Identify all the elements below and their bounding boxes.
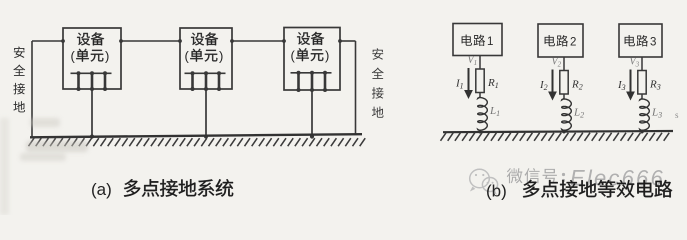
wire box 2 ground drop	[205, 89, 207, 137]
label I2	[539, 79, 548, 92]
circuit box 3 (电路3)	[619, 24, 662, 57]
label R1	[487, 77, 499, 90]
junction dot box 2 at ground plane	[204, 134, 208, 138]
label L2	[573, 107, 584, 120]
ground plane (a)	[30, 134, 362, 137]
wire left vertical safety-ground rail	[31, 41, 33, 137]
label R3	[649, 79, 661, 92]
caption (a)	[91, 179, 233, 199]
svg-text:I3: I3	[617, 79, 626, 92]
inductor L2	[562, 99, 572, 131]
label V3 node voltage	[630, 57, 640, 69]
wire branch 3 resistor to inductor	[641, 94, 643, 99]
ground plane (a) hatching	[29, 138, 366, 146]
svg-text:): )	[105, 49, 109, 64]
junction dot box 1 left terminal	[61, 39, 65, 43]
junction dot branch 3 at ground plane	[640, 130, 643, 133]
svg-text:V1: V1	[468, 55, 478, 67]
svg-text:R1: R1	[487, 77, 499, 90]
resistor R3	[638, 71, 646, 95]
junction dot branch 1 at ground plane	[478, 130, 481, 133]
current arrow I3	[626, 70, 635, 101]
label 设备 in box 1	[77, 32, 104, 45]
bonding straps in box 1	[77, 71, 108, 91]
label 安全接地 left (vertical)	[13, 46, 25, 112]
junction dot box 3 at ground plane	[310, 134, 314, 138]
wire branch 1 resistor to inductor	[479, 93, 481, 98]
wire branch 2 resistor to inductor	[563, 94, 565, 99]
internal ground bus in box 2	[185, 72, 226, 74]
inductor L1	[478, 97, 488, 131]
svg-text:1: 1	[487, 36, 493, 48]
svg-text:(b): (b)	[486, 182, 507, 201]
label 设备 in box 3	[297, 32, 324, 45]
svg-text:I1: I1	[455, 78, 464, 91]
wire right vertical safety-ground rail	[355, 41, 357, 135]
wire top bus segment 3	[232, 40, 284, 42]
junction dot box 1 at ground plane	[90, 134, 94, 138]
label L1	[489, 105, 500, 118]
label L3	[651, 107, 662, 120]
equipment box 3 (设备单元)	[284, 28, 340, 91]
inductor L3	[640, 99, 650, 131]
ground plane (b) hatching	[441, 133, 670, 141]
svg-text:V2: V2	[552, 57, 562, 69]
label (单元) in box 1	[71, 49, 110, 64]
svg-text:R2: R2	[571, 79, 583, 92]
junction dot box 2 left terminal	[178, 39, 182, 43]
junction dot box 2 right terminal	[230, 39, 234, 43]
wire box 3 ground drop	[311, 90, 313, 137]
bonding straps in box 2	[191, 71, 222, 91]
label V2 node voltage	[552, 57, 562, 69]
scan artifact left edge smudge	[0, 118, 9, 215]
label 设备 in box 2	[191, 32, 218, 45]
circuit box 2 (电路2)	[538, 24, 583, 57]
label I1	[455, 78, 464, 91]
internal ground bus in box 3	[291, 72, 332, 74]
svg-text:): )	[325, 48, 329, 63]
junction dot box 1 right terminal	[119, 39, 123, 43]
svg-text:2: 2	[570, 37, 576, 49]
wire top bus segment 4	[340, 40, 356, 42]
watermark text 微信号：Elec666	[507, 166, 665, 191]
wire branch 3 from box to resistor	[641, 57, 643, 71]
wire top bus segment 1	[32, 40, 63, 42]
label R2	[571, 79, 583, 92]
svg-text:(: (	[291, 48, 296, 63]
junction dot box 3 left terminal	[282, 39, 286, 43]
svg-text:(: (	[185, 49, 190, 64]
label 安全接地 right (vertical)	[372, 48, 384, 117]
label 电路1	[462, 34, 494, 48]
scan artifact above ground-left	[30, 118, 60, 127]
watermark wechat logo	[470, 169, 498, 194]
svg-text:I2: I2	[539, 79, 548, 92]
resistor R2	[560, 71, 568, 95]
current arrow I2	[548, 70, 557, 101]
label 电路3	[625, 35, 657, 49]
scan artifact bottom-left blob 1	[26, 141, 88, 152]
svg-text:R3: R3	[649, 79, 661, 92]
svg-text:V3: V3	[630, 57, 640, 69]
label V1 node voltage	[468, 55, 478, 67]
label 电路2	[545, 35, 577, 49]
label I3	[617, 79, 626, 92]
equipment box 1 (设备单元)	[63, 28, 121, 89]
junction dot box 3 right terminal	[338, 39, 342, 43]
label (单元) in box 2	[185, 49, 224, 64]
label (单元) in box 3	[291, 48, 330, 63]
svg-text:): )	[219, 49, 223, 64]
svg-text:(a): (a)	[91, 180, 112, 199]
svg-text:L1: L1	[489, 105, 500, 118]
scan artifact bottom-left blob 2	[20, 153, 66, 161]
wire top bus segment 2	[121, 40, 180, 42]
svg-text:3: 3	[650, 37, 656, 49]
svg-text:s: s	[675, 110, 679, 120]
equipment box 2 (设备单元)	[180, 28, 232, 89]
resistor R1	[476, 69, 484, 93]
svg-text:L2: L2	[573, 107, 584, 120]
internal ground bus in box 1	[71, 72, 112, 74]
ground plane (b)	[443, 131, 673, 132]
caption (b)	[486, 180, 672, 201]
svg-text:L3: L3	[651, 107, 662, 120]
junction dot branch 2 at ground plane	[562, 130, 565, 133]
circuit box 1 (电路1)	[453, 24, 502, 56]
current arrow I1	[464, 68, 473, 99]
wire branch 1 from box to resistor	[479, 56, 481, 70]
wire branch 2 from box to resistor	[563, 57, 565, 71]
wire box 1 ground drop	[91, 89, 93, 137]
bonding straps in box 3	[297, 71, 328, 92]
svg-text:(: (	[71, 49, 76, 64]
